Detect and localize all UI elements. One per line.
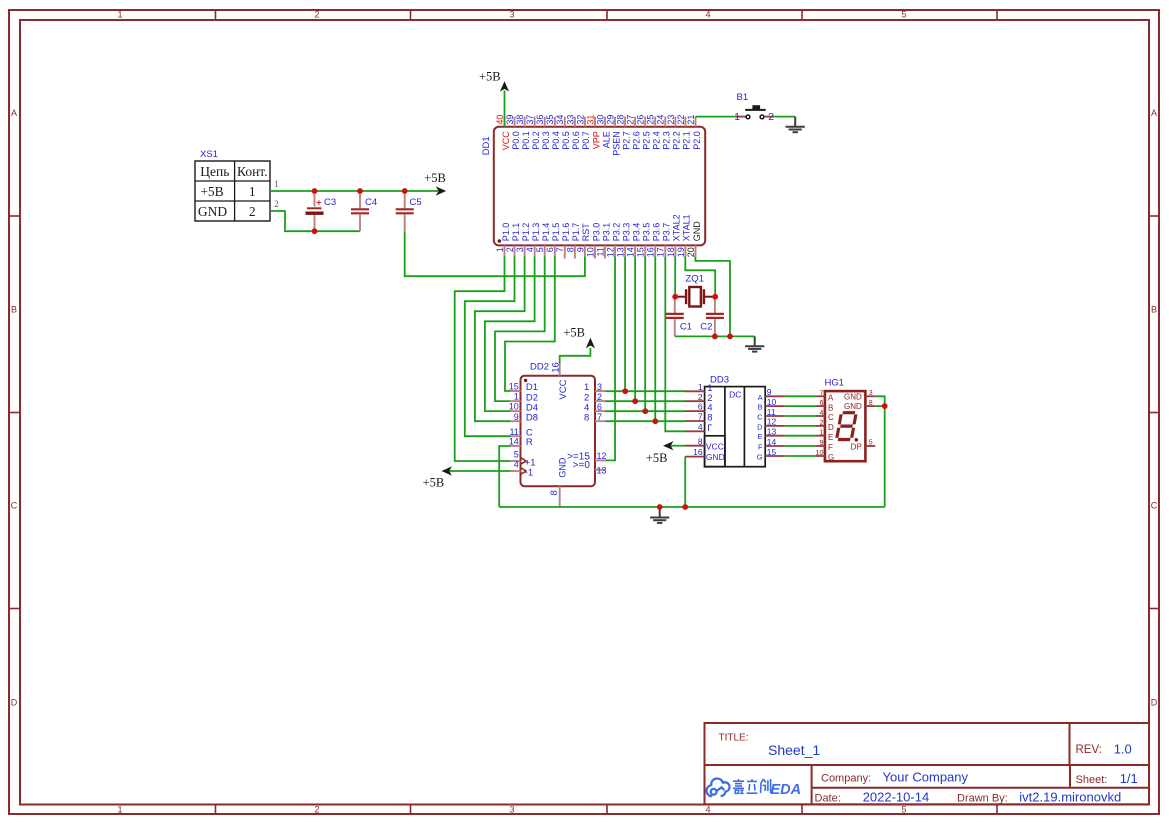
- svg-text:Your Company: Your Company: [883, 770, 969, 785]
- svg-text:XTAL2: XTAL2: [672, 214, 682, 241]
- DD2 pin 1 D2: [510, 400, 520, 402]
- svg-text:+5В: +5В: [200, 184, 223, 199]
- DD2 pin 8 GND stub: [559, 486, 561, 507]
- svg-text:6: 6: [819, 400, 823, 407]
- svg-text:P3.3: P3.3: [621, 223, 631, 242]
- DD1 pin 13 P3.3: [624, 245, 626, 256]
- svg-text:17: 17: [656, 247, 666, 257]
- svg-text:23: 23: [666, 115, 676, 125]
- svg-text:29: 29: [605, 115, 615, 125]
- HG1 pin 9 segment F: [815, 445, 825, 447]
- DD1 pin 11 P3.1: [604, 245, 606, 258]
- svg-text:27: 27: [626, 115, 636, 125]
- DD2 pin 12 >=15: [595, 459, 605, 461]
- wire segment F DD3 to HG1: [785, 445, 815, 447]
- svg-text:5: 5: [514, 450, 519, 460]
- wire HG1 GND pins: [875, 396, 885, 406]
- svg-text:D: D: [828, 423, 834, 432]
- wire DD2 VCC to +5V: [560, 348, 591, 364]
- DD1 pin 16 P3.6: [654, 245, 656, 256]
- wire P3.2 to DD2 >=15: [605, 256, 615, 460]
- DD1 pin 36 P0.3: [544, 117, 546, 127]
- svg-text:2: 2: [768, 111, 774, 123]
- junction net1: [622, 388, 628, 394]
- svg-text:DC: DC: [729, 390, 741, 400]
- svg-text:D: D: [1151, 698, 1158, 708]
- DD1 pin 14 P3.4: [634, 245, 636, 256]
- svg-text:P3.0: P3.0: [591, 223, 601, 242]
- wire net 8 DD2 to DD3: [605, 420, 685, 422]
- svg-text:6: 6: [698, 402, 703, 412]
- DD1 pin 22 P2.1: [684, 117, 686, 127]
- DD1 pin 30 ALE: [604, 117, 606, 127]
- DD2 pin 6 output 4: [595, 410, 605, 412]
- wire P3.6 to net 8: [654, 256, 656, 421]
- DD1 pin 40 VCC: [504, 117, 506, 127]
- HG1 pin 2 segment D: [815, 425, 825, 427]
- svg-text:Sheet:: Sheet:: [1076, 774, 1108, 786]
- DD2 pin 16 VCC stub: [559, 364, 561, 376]
- junction net4: [642, 408, 648, 414]
- DD1 pin 15 P3.5: [644, 245, 646, 256]
- svg-text:13: 13: [616, 247, 626, 257]
- svg-text:9: 9: [767, 387, 772, 397]
- svg-text:36: 36: [535, 115, 545, 125]
- ground at B1: [794, 117, 796, 127]
- DD2 pin 4 -1: [510, 470, 520, 472]
- svg-text:DD1: DD1: [481, 136, 492, 155]
- DD1 pin 4 P1.3: [534, 245, 536, 256]
- svg-text:30: 30: [595, 115, 605, 125]
- svg-text:P0.4: P0.4: [551, 131, 561, 150]
- svg-text:XTAL1: XTAL1: [682, 214, 692, 241]
- svg-text:+5В: +5В: [423, 475, 445, 489]
- HG1 pin 7 segment A: [815, 395, 825, 397]
- svg-text:Г: Г: [707, 423, 712, 434]
- counter DD2 body: [521, 376, 596, 487]
- svg-text:6: 6: [545, 247, 555, 252]
- svg-text:G: G: [828, 453, 834, 462]
- DD3 pin 1 input 1: [685, 390, 705, 392]
- DD1 pin 17 P3.7: [664, 245, 666, 256]
- svg-text:2022-10-14: 2022-10-14: [863, 790, 930, 805]
- DD1 pin 27 P2.6: [634, 117, 636, 127]
- wire segment B DD3 to HG1: [785, 405, 815, 407]
- svg-text:P3.2: P3.2: [611, 223, 621, 242]
- DD3 pin 12 output D: [765, 425, 785, 427]
- wire B1 to ground: [774, 116, 795, 118]
- svg-text:2: 2: [698, 392, 703, 402]
- svg-text:3: 3: [869, 390, 873, 397]
- svg-text:TITLE:: TITLE:: [719, 733, 749, 744]
- svg-text:P0.0: P0.0: [511, 131, 521, 150]
- svg-text:3: 3: [597, 382, 602, 392]
- ground below crystal: [754, 336, 756, 346]
- svg-text:1/1: 1/1: [1120, 771, 1138, 786]
- svg-text:19: 19: [676, 247, 686, 257]
- DD1 pin 25 P2.4: [654, 117, 656, 127]
- DD2 pin 13 >=0: [595, 469, 605, 471]
- junction rail gnd: [657, 504, 663, 510]
- svg-text:P2.7: P2.7: [621, 131, 631, 150]
- DD2 pin 15 D1: [510, 390, 520, 392]
- svg-text:16: 16: [646, 247, 656, 257]
- svg-text:2: 2: [819, 420, 823, 427]
- wire net 4 DD2 to DD3: [605, 410, 685, 412]
- DD3 pin 9 output A: [765, 395, 785, 397]
- DD1 pin 12 P3.2: [614, 245, 616, 256]
- svg-text:PSEN: PSEN: [611, 131, 621, 156]
- decoder DD3 body: [705, 387, 766, 467]
- DD3 pin 16 GND: [685, 456, 705, 458]
- DD2 pin 10 D4: [510, 410, 520, 412]
- wire segment G DD3 to HG1: [785, 455, 815, 457]
- wire P1.5 to DD2 D1: [505, 256, 555, 391]
- svg-text:4: 4: [525, 247, 535, 252]
- junction net8: [652, 418, 658, 424]
- svg-text:9: 9: [514, 412, 519, 422]
- DD1 pin 9 RST: [584, 245, 586, 256]
- junction C4 top: [357, 188, 363, 194]
- DD1 pin 6 P1.5: [554, 245, 556, 256]
- DD1 pin 2 P1.1: [514, 245, 516, 256]
- svg-text:C: C: [757, 413, 763, 422]
- svg-text:Date:: Date:: [815, 793, 841, 805]
- svg-text:1: 1: [514, 392, 519, 402]
- svg-text:P2.4: P2.4: [652, 131, 662, 150]
- svg-text:28: 28: [616, 115, 626, 125]
- svg-text:DD3: DD3: [710, 374, 729, 385]
- display HG1 body: [825, 391, 866, 461]
- wire DD1 VCC to +5V: [504, 91, 506, 127]
- svg-text:P2.5: P2.5: [642, 131, 652, 150]
- svg-text:7: 7: [819, 390, 823, 397]
- HG1 pin 8 GND: [865, 405, 875, 407]
- HG1 digit 8 with decimal point: [837, 413, 857, 440]
- svg-text:4: 4: [705, 805, 710, 815]
- svg-text:12: 12: [767, 417, 777, 427]
- svg-text:Конт.: Конт.: [237, 164, 268, 179]
- svg-text:GND: GND: [706, 452, 725, 462]
- HG1 pin 3 GND: [865, 395, 875, 397]
- DD1 pin 21 P2.0: [695, 117, 697, 127]
- svg-text:A: A: [758, 393, 763, 402]
- DD3 pin 2 input 2: [685, 400, 705, 402]
- svg-text:P0.2: P0.2: [531, 131, 541, 150]
- svg-text:E: E: [758, 432, 763, 441]
- DD3 pin 10 output B: [765, 405, 785, 407]
- svg-text:20: 20: [686, 247, 696, 257]
- svg-text:P1.5: P1.5: [551, 223, 561, 242]
- junction ZQ1 right: [712, 294, 718, 300]
- DD2 pin 3 output 1: [595, 390, 605, 392]
- HG1 pin 10 segment G: [815, 455, 825, 457]
- svg-text:P0.7: P0.7: [581, 131, 591, 150]
- DD3 pin 7 input 8: [685, 420, 705, 422]
- svg-text:11: 11: [595, 247, 605, 256]
- wire segment D DD3 to HG1: [785, 425, 815, 427]
- svg-text:C: C: [11, 501, 18, 511]
- svg-text:B: B: [11, 305, 17, 315]
- wire segment C DD3 to HG1: [785, 415, 815, 417]
- svg-text:P3.4: P3.4: [631, 223, 641, 242]
- wire P1.1 to DD2 C: [465, 256, 515, 436]
- svg-text:C2: C2: [700, 322, 712, 333]
- DD3 pin 14 output F: [765, 445, 785, 447]
- svg-text:5: 5: [901, 10, 906, 20]
- DD1 pin 18 XTAL2: [674, 245, 676, 256]
- svg-text:P1.0: P1.0: [501, 223, 511, 242]
- DD1 pin 37 P0.2: [534, 117, 536, 127]
- junction C5 top: [402, 188, 408, 194]
- power +5B arrow right of C5: [436, 186, 446, 195]
- capacitor C3 (electrolytic): [314, 191, 316, 207]
- DD2 pin 2 output 2: [595, 400, 605, 402]
- svg-text:DD2: DD2: [530, 362, 549, 373]
- svg-text:P0.6: P0.6: [571, 131, 581, 150]
- svg-text:C4: C4: [365, 197, 377, 208]
- DD1 pin 5 P1.4: [544, 245, 546, 256]
- HG1 pin 5 DP: [865, 445, 875, 447]
- svg-text:4: 4: [705, 10, 710, 20]
- wire DD1 P2.0 to B1: [695, 116, 735, 118]
- wire bottom ground rail: [499, 506, 885, 508]
- svg-text:4: 4: [514, 460, 519, 470]
- DD1 pin 26 P2.5: [644, 117, 646, 127]
- svg-text:7: 7: [555, 247, 565, 252]
- svg-text:P1.6: P1.6: [561, 223, 571, 242]
- wire segment E DD3 to HG1: [785, 435, 815, 437]
- junction rail DD3-GND: [682, 504, 688, 510]
- svg-text:P3.7: P3.7: [662, 223, 672, 242]
- svg-text:RST: RST: [581, 223, 591, 242]
- svg-text:HG1: HG1: [825, 378, 845, 389]
- wire DD3 VCC to +5V: [671, 445, 685, 447]
- svg-text:11: 11: [767, 407, 776, 417]
- svg-text:1: 1: [495, 247, 505, 252]
- svg-text:R: R: [526, 437, 533, 448]
- svg-text:1: 1: [734, 111, 740, 123]
- svg-text:D: D: [757, 422, 763, 431]
- HG1 pin 1 segment E: [815, 435, 825, 437]
- DD3 pin 13 output E: [765, 435, 785, 437]
- svg-text:C5: C5: [410, 197, 422, 208]
- ground on bottom rail: [659, 507, 661, 518]
- svg-text:8: 8: [549, 490, 560, 495]
- svg-text:35: 35: [545, 115, 555, 125]
- svg-text:21: 21: [686, 115, 696, 125]
- svg-text:10: 10: [767, 397, 777, 407]
- svg-text:VCC: VCC: [558, 379, 569, 399]
- svg-text:24: 24: [656, 115, 666, 125]
- DD1 pin 32 P0.7: [584, 117, 586, 127]
- power +5B above DD2: [586, 338, 595, 348]
- svg-text:P3.1: P3.1: [601, 223, 611, 242]
- svg-text:+5В: +5В: [424, 171, 446, 185]
- svg-text:P2.1: P2.1: [682, 131, 692, 150]
- svg-text:34: 34: [555, 115, 565, 125]
- capacitor C1: [674, 297, 676, 313]
- DD1 pin 34 P0.5: [564, 117, 566, 127]
- svg-text:1: 1: [819, 430, 823, 437]
- svg-text:B: B: [828, 403, 833, 412]
- wire DD1 GND down: [695, 256, 730, 336]
- svg-text:3: 3: [515, 247, 525, 252]
- svg-text:8: 8: [584, 412, 589, 423]
- junction C3 top: [312, 188, 318, 194]
- svg-text:22: 22: [676, 115, 686, 125]
- svg-text:P1.2: P1.2: [521, 223, 531, 242]
- svg-text:+5В: +5В: [563, 326, 585, 340]
- svg-text:P0.3: P0.3: [541, 131, 551, 150]
- DD2 pin 9 D8: [510, 420, 520, 422]
- DD3 pin 8 VCC: [685, 445, 705, 447]
- wire net 1 DD2 to DD3: [605, 390, 685, 392]
- svg-text:D8: D8: [526, 412, 538, 423]
- svg-text:8: 8: [565, 247, 575, 252]
- svg-text:26: 26: [636, 115, 646, 125]
- svg-text:1: 1: [698, 382, 703, 392]
- svg-text:33: 33: [565, 115, 575, 125]
- wire P1.0 to DD2 +1: [455, 256, 511, 461]
- svg-text:6: 6: [597, 402, 602, 412]
- svg-text:2: 2: [597, 392, 602, 402]
- power +5B above DD1: [500, 81, 509, 91]
- svg-text:GND: GND: [558, 457, 568, 478]
- title block frame: [705, 723, 1150, 804]
- capacitor C4: [359, 191, 361, 208]
- svg-text:8: 8: [698, 436, 703, 446]
- svg-text:P3.6: P3.6: [652, 223, 662, 242]
- wire rail to DD2 R: [499, 446, 510, 507]
- svg-text:P1.7: P1.7: [571, 223, 581, 242]
- svg-text:1: 1: [117, 805, 122, 815]
- svg-text:P2.2: P2.2: [672, 131, 682, 150]
- wire DD2 -1 to +5V: [449, 470, 510, 472]
- svg-text:P0.5: P0.5: [561, 131, 571, 150]
- svg-text:32: 32: [575, 115, 585, 125]
- svg-text:3: 3: [509, 10, 514, 20]
- svg-text:9: 9: [819, 440, 823, 447]
- DD1 pin 28 P2.7: [624, 117, 626, 127]
- svg-text:10: 10: [509, 402, 519, 412]
- wire P3.5 to net 4: [644, 256, 646, 411]
- svg-text:E: E: [828, 433, 833, 442]
- svg-text:VCC: VCC: [501, 131, 511, 151]
- svg-text:2: 2: [505, 247, 515, 252]
- svg-text:18: 18: [666, 247, 676, 257]
- DD2 pin 7 output 8: [595, 420, 605, 422]
- svg-text:F: F: [758, 443, 763, 452]
- svg-text:4: 4: [698, 422, 703, 432]
- wire XTAL2 to ZQ1: [674, 256, 676, 296]
- svg-text:14: 14: [626, 247, 636, 257]
- svg-text:P2.6: P2.6: [631, 131, 641, 150]
- svg-text:3: 3: [509, 805, 514, 815]
- DD1 pin 10 P3.0: [594, 245, 596, 258]
- junction DD1-GND rail: [727, 334, 733, 340]
- svg-text:1.0: 1.0: [1114, 742, 1132, 757]
- svg-text:5: 5: [535, 247, 545, 252]
- power +5B left of DD3: [663, 441, 673, 450]
- junction HG1 gnd: [882, 403, 888, 409]
- DD2 pin 5 +1: [510, 460, 520, 462]
- power +5B left of DD2: [442, 466, 452, 475]
- svg-text:10: 10: [585, 247, 595, 257]
- DD1 pin 38 P0.1: [524, 117, 526, 127]
- svg-text:Цепь: Цепь: [200, 164, 229, 179]
- svg-text:16: 16: [693, 447, 703, 457]
- DD1 pin 20 GND: [695, 245, 697, 256]
- wire segment A DD3 to HG1: [785, 395, 815, 397]
- DD2 pin 14 R: [510, 445, 520, 447]
- DD1 pin 39 P0.0: [514, 117, 516, 127]
- svg-text:2: 2: [249, 204, 256, 219]
- JLC EasyEDA logo: [707, 778, 730, 796]
- svg-text:A: A: [828, 394, 834, 403]
- svg-text:8: 8: [869, 400, 873, 407]
- svg-text:37: 37: [525, 115, 535, 125]
- wire C5 to RST: [405, 231, 585, 276]
- svg-text:ZQ1: ZQ1: [686, 274, 704, 285]
- DD1 pin 33 P0.6: [574, 117, 576, 127]
- wire crystal ground rail: [675, 335, 755, 337]
- svg-text:13: 13: [767, 427, 777, 437]
- svg-text:2: 2: [314, 805, 319, 815]
- svg-text:P1.4: P1.4: [541, 223, 551, 242]
- svg-text:+5В: +5В: [479, 70, 501, 84]
- svg-text:ivt2.19.mironovkd: ivt2.19.mironovkd: [1019, 790, 1121, 805]
- svg-text:2: 2: [314, 10, 319, 20]
- svg-text:G: G: [757, 453, 763, 462]
- DD3 pin 4 input Г: [685, 430, 705, 432]
- junction C3 bottom: [312, 228, 318, 234]
- svg-text:14: 14: [767, 437, 777, 447]
- svg-text:5: 5: [901, 805, 906, 815]
- svg-text:11: 11: [509, 427, 518, 437]
- svg-text:B: B: [758, 403, 763, 412]
- DD2 pin 11 C: [510, 435, 520, 437]
- svg-text:VCC: VCC: [706, 441, 724, 451]
- wire HG1 gnd down: [875, 405, 885, 407]
- svg-text:31: 31: [585, 115, 595, 125]
- DD1 pin 8 P1.7: [574, 245, 576, 258]
- svg-text:+: +: [316, 198, 322, 209]
- DD1 pin 19 XTAL1: [684, 245, 686, 256]
- svg-text:15: 15: [636, 247, 646, 257]
- DD3 pin 15 output G: [765, 455, 785, 457]
- svg-text:5: 5: [869, 440, 873, 447]
- svg-text:15: 15: [509, 382, 519, 392]
- svg-text:+5В: +5В: [646, 451, 668, 465]
- svg-text:D: D: [11, 698, 18, 708]
- junction C2 gnd: [712, 334, 718, 340]
- svg-text:>=0: >=0: [573, 460, 591, 471]
- svg-text:DP: DP: [851, 443, 862, 452]
- DD1 pin 31 VPP: [594, 117, 596, 127]
- DD1 pin 7 P1.6: [564, 245, 566, 258]
- wire P1.2 to DD2 D8: [475, 256, 525, 421]
- svg-text:P3.5: P3.5: [642, 223, 652, 242]
- svg-text:C: C: [828, 413, 834, 422]
- svg-text:Sheet_1: Sheet_1: [768, 742, 820, 758]
- wire XS1 pin 2 to gnd bus: [270, 211, 360, 231]
- capacitor C2: [714, 297, 716, 313]
- wire +5V from XS1 pin 1: [270, 190, 438, 192]
- svg-text:B1: B1: [737, 92, 749, 103]
- svg-text:38: 38: [515, 115, 525, 125]
- svg-text:P2.0: P2.0: [692, 131, 702, 150]
